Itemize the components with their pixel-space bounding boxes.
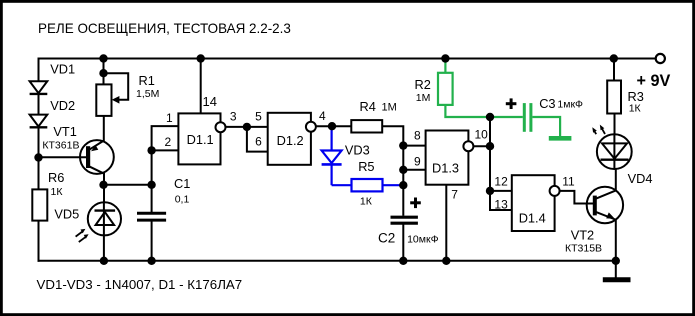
- gate D1.1: [178, 113, 225, 164]
- wire R1 to VT1 emitter: [103, 116, 105, 141]
- node VT1 base tap: [34, 153, 42, 161]
- ground green (C3): [549, 136, 572, 141]
- C2 plus sign: [410, 198, 421, 209]
- svg-text:VD5: VD5: [54, 206, 79, 221]
- wire VT2 emitter to bus: [615, 220, 617, 261]
- ground (main): [603, 277, 631, 282]
- wire VD5 to bottom bus: [103, 235, 105, 260]
- node D1.1 out: [243, 123, 251, 131]
- svg-text:D1.4: D1.4: [519, 210, 546, 225]
- svg-text:4: 4: [319, 109, 326, 123]
- wire D1.3 pin8: [403, 145, 425, 147]
- svg-text:3: 3: [230, 110, 237, 124]
- resistor R2 (green): [438, 59, 523, 118]
- wire D1.4 pin12: [490, 190, 512, 192]
- wire VT2 collector to VD4: [615, 170, 617, 191]
- wire top supply bus: [39, 58, 657, 60]
- svg-text:1: 1: [166, 111, 173, 125]
- node green C3 tap: [486, 113, 494, 121]
- gate D1.2: [268, 113, 316, 165]
- svg-text:5: 5: [255, 110, 262, 124]
- wire C2 to bottom bus: [402, 223, 404, 261]
- wire node 10 vertical: [489, 117, 491, 191]
- node pin2 tie: [147, 146, 155, 154]
- svg-text:R5: R5: [358, 159, 374, 174]
- wire D1.3 out: [473, 145, 490, 147]
- node C2 bottom: [399, 257, 407, 265]
- wire R1 branch vertical: [103, 59, 105, 85]
- node pin8: [399, 141, 407, 149]
- svg-text:VD2: VD2: [50, 98, 75, 113]
- diode VD1: [30, 81, 48, 94]
- node VD5 bottom: [100, 257, 108, 265]
- wire C1 to bottom bus: [151, 221, 153, 261]
- node D1.2 out / VD3: [328, 122, 336, 130]
- svg-text:VD3: VD3: [345, 143, 370, 158]
- capacitor C2: [391, 217, 418, 223]
- svg-text:С3: С3: [539, 96, 555, 111]
- svg-text:КТ315В: КТ315В: [565, 243, 602, 255]
- svg-text:1К: 1К: [629, 103, 642, 115]
- node pin12 tie: [486, 187, 494, 195]
- node R5 out: [399, 181, 407, 189]
- svg-text:10мкФ: 10мкФ: [407, 234, 438, 246]
- svg-text:+ 9V: + 9V: [637, 72, 671, 90]
- svg-text:8: 8: [414, 129, 421, 143]
- svg-text:1К: 1К: [51, 186, 64, 198]
- node pin9: [399, 166, 407, 174]
- resistor R5 (blue): [352, 179, 404, 191]
- svg-text:13: 13: [494, 197, 508, 211]
- svg-text:R4: R4: [360, 99, 376, 114]
- wire bottom ground bus: [38, 260, 617, 262]
- svg-text:C1: C1: [174, 176, 190, 191]
- node C1 top: [147, 181, 155, 189]
- photodiode VD5: [76, 202, 121, 242]
- svg-text:D1.1: D1.1: [187, 132, 214, 147]
- wire D1 pin14: [200, 59, 202, 114]
- wire ground stub: [615, 261, 617, 278]
- svg-text:VD1-VD3 - 1N4007, D1 - К176ЛА7: VD1-VD3 - 1N4007, D1 - К176ЛА7: [37, 277, 243, 292]
- svg-text:1К: 1К: [360, 196, 373, 208]
- capacitor C3 (green): [524, 103, 560, 137]
- node C1 bottom: [147, 257, 155, 265]
- resistor R6: [32, 189, 47, 220]
- svg-text:VD4: VD4: [628, 171, 653, 186]
- wire D1.1 pin2: [152, 149, 179, 151]
- svg-text:РЕЛЕ ОСВЕЩЕНИЯ, ТЕСТОВАЯ 2.2-2: РЕЛЕ ОСВЕЩЕНИЯ, ТЕСТОВАЯ 2.2-2.3: [38, 21, 291, 36]
- svg-text:D1.3: D1.3: [432, 161, 459, 176]
- wire R3 to top bus: [613, 59, 615, 81]
- wire D1.4 pin13 tie: [490, 191, 512, 210]
- wire left vertical branch: [38, 58, 40, 262]
- svg-text:D1.2: D1.2: [277, 133, 304, 148]
- gate D1.4: [512, 175, 560, 231]
- resistor R3: [607, 81, 621, 114]
- C3 plus sign: [506, 98, 517, 109]
- node VT2 emitter bottom: [612, 257, 620, 265]
- svg-text:1мкФ: 1мкФ: [557, 99, 583, 111]
- svg-text:1М: 1М: [382, 102, 397, 114]
- transistor VT2: [587, 187, 623, 223]
- svg-text:12: 12: [494, 175, 508, 189]
- node R2 bus: [441, 54, 449, 62]
- svg-text:VT1: VT1: [53, 124, 76, 139]
- svg-text:R1: R1: [139, 73, 155, 88]
- wire R4 to node column: [382, 126, 403, 216]
- svg-text:2: 2: [165, 135, 172, 149]
- transistor VT1: [80, 140, 114, 174]
- wire VT1 collector to C1 node: [104, 184, 152, 186]
- node pin7 bottom: [442, 257, 450, 265]
- wire VT1 base: [39, 156, 87, 158]
- capacitor C1: [137, 213, 166, 220]
- node collector C1: [99, 181, 107, 189]
- gate D1.3: [426, 131, 474, 185]
- wire VT1 collector down: [103, 173, 105, 203]
- node D1.3 out: [486, 142, 494, 150]
- diode VD2: [30, 115, 48, 128]
- wire VD4 to R3: [614, 114, 616, 135]
- node R3 bus: [610, 54, 618, 62]
- svg-text:VD1: VD1: [50, 62, 75, 77]
- wire D1.3 pin7: [445, 185, 447, 261]
- diode VD3 (blue): [322, 125, 352, 185]
- svg-text:VT2: VT2: [571, 228, 594, 243]
- svg-text:R6: R6: [48, 170, 64, 185]
- svg-text:11: 11: [562, 174, 575, 188]
- wire node to C1: [151, 150, 153, 214]
- wire D1.3 pin9: [403, 169, 425, 171]
- wire D1.2 out to R4: [316, 125, 351, 127]
- svg-text:7: 7: [451, 187, 458, 201]
- node R1 wiper tap: [99, 69, 107, 77]
- resistor R4: [351, 120, 382, 132]
- wire D1.2 pin6 tie: [247, 127, 268, 152]
- svg-text:14: 14: [203, 94, 217, 109]
- resistor R1 (potentiometer body): [96, 84, 119, 116]
- svg-text:0,1: 0,1: [175, 193, 190, 205]
- wire R1 wiper: [104, 73, 129, 100]
- wire D1.1 pin1 tie: [152, 126, 179, 150]
- node R1 top bus: [99, 54, 107, 62]
- wire D1.1 out to D1.2 pin5: [226, 126, 268, 128]
- LED VD4: [592, 125, 631, 169]
- terminal +9V: [656, 54, 665, 63]
- svg-text:C2: C2: [378, 231, 395, 246]
- svg-text:КТ361В: КТ361В: [42, 140, 79, 152]
- wire D1.4 out to VT2 base: [560, 191, 593, 204]
- svg-text:6: 6: [255, 135, 262, 149]
- svg-text:10: 10: [475, 128, 489, 142]
- svg-text:R2: R2: [415, 77, 431, 92]
- svg-text:1,5M: 1,5M: [136, 88, 159, 100]
- svg-text:9: 9: [414, 155, 421, 169]
- svg-text:1М: 1М: [416, 92, 431, 104]
- node pin14 bus: [197, 54, 205, 62]
